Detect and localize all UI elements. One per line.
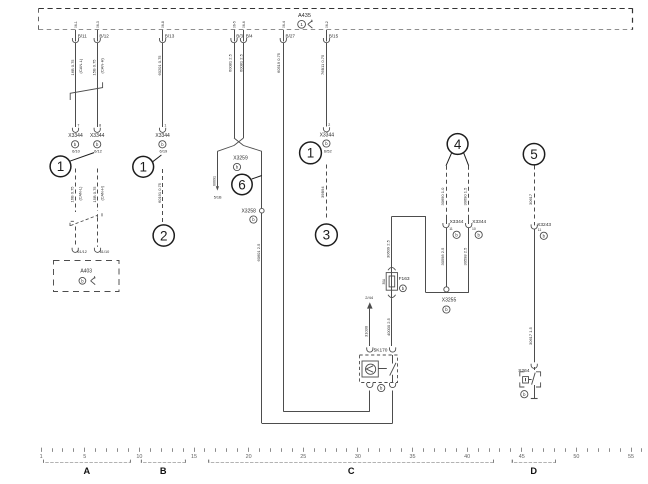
svg-text:B/4: B/4 xyxy=(246,34,253,39)
svg-text:6/52: 6/52 xyxy=(324,149,333,154)
svg-text:06-2: 06-2 xyxy=(325,21,329,28)
svg-text:06-4: 06-4 xyxy=(282,21,286,28)
svg-text:(CAN-H): (CAN-H) xyxy=(101,185,105,200)
svg-text:50: 50 xyxy=(573,454,579,460)
svg-text:4: 4 xyxy=(454,137,462,152)
svg-text:60201 0.75: 60201 0.75 xyxy=(157,55,162,76)
svg-text:6/10: 6/10 xyxy=(72,149,81,154)
svg-text:1: 1 xyxy=(164,123,166,127)
svg-text:X3344: X3344 xyxy=(90,133,105,139)
svg-text:X3344: X3344 xyxy=(155,133,170,139)
svg-text:B/15: B/15 xyxy=(329,34,339,39)
svg-text:30609 2.5: 30609 2.5 xyxy=(386,239,391,258)
svg-text:76B11 0.75: 76B11 0.75 xyxy=(320,54,325,75)
svg-text:30598 2.5: 30598 2.5 xyxy=(440,247,445,266)
svg-text:(CAN-L): (CAN-L) xyxy=(78,58,83,73)
svg-text:60081 2.5: 60081 2.5 xyxy=(238,53,243,72)
svg-text:3: 3 xyxy=(323,228,331,243)
svg-text:30598 2.5: 30598 2.5 xyxy=(462,247,467,266)
svg-text:61/10: 61/10 xyxy=(100,250,110,254)
svg-text:35: 35 xyxy=(410,454,416,460)
svg-text:5K170: 5K170 xyxy=(374,348,388,354)
svg-text:10: 10 xyxy=(472,227,476,231)
svg-text:A: A xyxy=(83,466,90,476)
svg-text:60601 2.5: 60601 2.5 xyxy=(256,243,261,262)
svg-text:30690 1.0: 30690 1.0 xyxy=(440,187,445,206)
svg-text:2: 2 xyxy=(328,123,330,127)
svg-text:X3344: X3344 xyxy=(68,133,83,139)
svg-text:1: 1 xyxy=(40,454,43,460)
svg-text:06-8: 06-8 xyxy=(161,21,165,28)
svg-text:(CAN-L): (CAN-L) xyxy=(79,186,83,201)
svg-text:5/1B: 5/1B xyxy=(214,195,222,199)
svg-text:5: 5 xyxy=(530,147,538,162)
svg-text:D: D xyxy=(530,466,537,476)
svg-text:30: 30 xyxy=(355,454,361,460)
svg-text:15B 0.75: 15B 0.75 xyxy=(92,59,97,76)
svg-text:31030: 31030 xyxy=(364,325,369,337)
svg-text:6: 6 xyxy=(238,177,246,192)
svg-text:B/11: B/11 xyxy=(78,34,88,39)
svg-text:45: 45 xyxy=(519,454,525,460)
svg-text:11: 11 xyxy=(449,227,453,231)
svg-text:7: 7 xyxy=(77,123,79,127)
svg-text:30617 1.5: 30617 1.5 xyxy=(528,326,533,345)
svg-text:X3255: X3255 xyxy=(442,298,457,304)
svg-text:16B 0.75: 16B 0.75 xyxy=(70,186,75,203)
svg-text:40000 2.5: 40000 2.5 xyxy=(386,317,391,336)
svg-text:39B94: 39B94 xyxy=(320,186,325,198)
svg-text:A435: A435 xyxy=(298,13,311,19)
svg-text:X3344: X3344 xyxy=(472,219,486,225)
svg-text:B/13: B/13 xyxy=(165,34,175,39)
svg-text:X3258: X3258 xyxy=(241,208,256,214)
svg-text:2: 2 xyxy=(160,228,168,243)
svg-text:6/12: 6/12 xyxy=(94,149,103,154)
svg-text:15B 0.75: 15B 0.75 xyxy=(92,186,97,203)
svg-text:X3344: X3344 xyxy=(450,219,464,225)
svg-text:10: 10 xyxy=(136,454,142,460)
svg-text:B/3: B/3 xyxy=(236,34,243,39)
svg-text:25: 25 xyxy=(300,454,306,460)
svg-text:60519 0.75: 60519 0.75 xyxy=(276,52,281,73)
svg-text:60081 2.5: 60081 2.5 xyxy=(227,53,232,72)
svg-text:06-3: 06-3 xyxy=(96,21,100,28)
svg-text:6/19: 6/19 xyxy=(160,149,169,154)
svg-text:A403: A403 xyxy=(80,268,92,274)
svg-text:1: 1 xyxy=(300,22,303,27)
svg-text:40: 40 xyxy=(464,454,470,460)
svg-text:F163: F163 xyxy=(399,276,410,282)
svg-text:(CAN-H): (CAN-H) xyxy=(100,58,105,74)
svg-text:20: 20 xyxy=(246,454,252,460)
svg-text:1: 1 xyxy=(139,160,147,175)
svg-text:30A: 30A xyxy=(382,278,386,285)
svg-text:16B 0.75: 16B 0.75 xyxy=(70,59,75,76)
svg-text:06-6: 06-6 xyxy=(242,21,246,28)
svg-text:B/27: B/27 xyxy=(286,34,296,39)
svg-text:60191 0.75: 60191 0.75 xyxy=(157,182,162,203)
svg-text:B/12: B/12 xyxy=(99,34,109,39)
svg-text:8: 8 xyxy=(99,123,101,127)
svg-text:5: 5 xyxy=(83,454,86,460)
svg-text:1: 1 xyxy=(57,159,65,174)
svg-text:55: 55 xyxy=(628,454,634,460)
svg-text:60691: 60691 xyxy=(212,176,216,186)
svg-text:30690 1.5: 30690 1.5 xyxy=(463,187,468,206)
svg-text:15: 15 xyxy=(191,454,197,460)
svg-text:11: 11 xyxy=(538,228,542,232)
svg-text:C: C xyxy=(348,466,355,476)
svg-text:1: 1 xyxy=(307,146,315,161)
svg-text:2/44: 2/44 xyxy=(365,295,374,300)
svg-text:30617: 30617 xyxy=(528,193,533,205)
svg-text:X3243: X3243 xyxy=(537,222,551,228)
svg-text:61/12: 61/12 xyxy=(77,250,87,254)
svg-text:06-1: 06-1 xyxy=(74,21,78,28)
svg-text:X3259: X3259 xyxy=(233,156,248,162)
svg-text:B: B xyxy=(160,466,167,476)
svg-text:06-5: 06-5 xyxy=(233,21,237,28)
svg-text:X3344: X3344 xyxy=(320,132,335,138)
